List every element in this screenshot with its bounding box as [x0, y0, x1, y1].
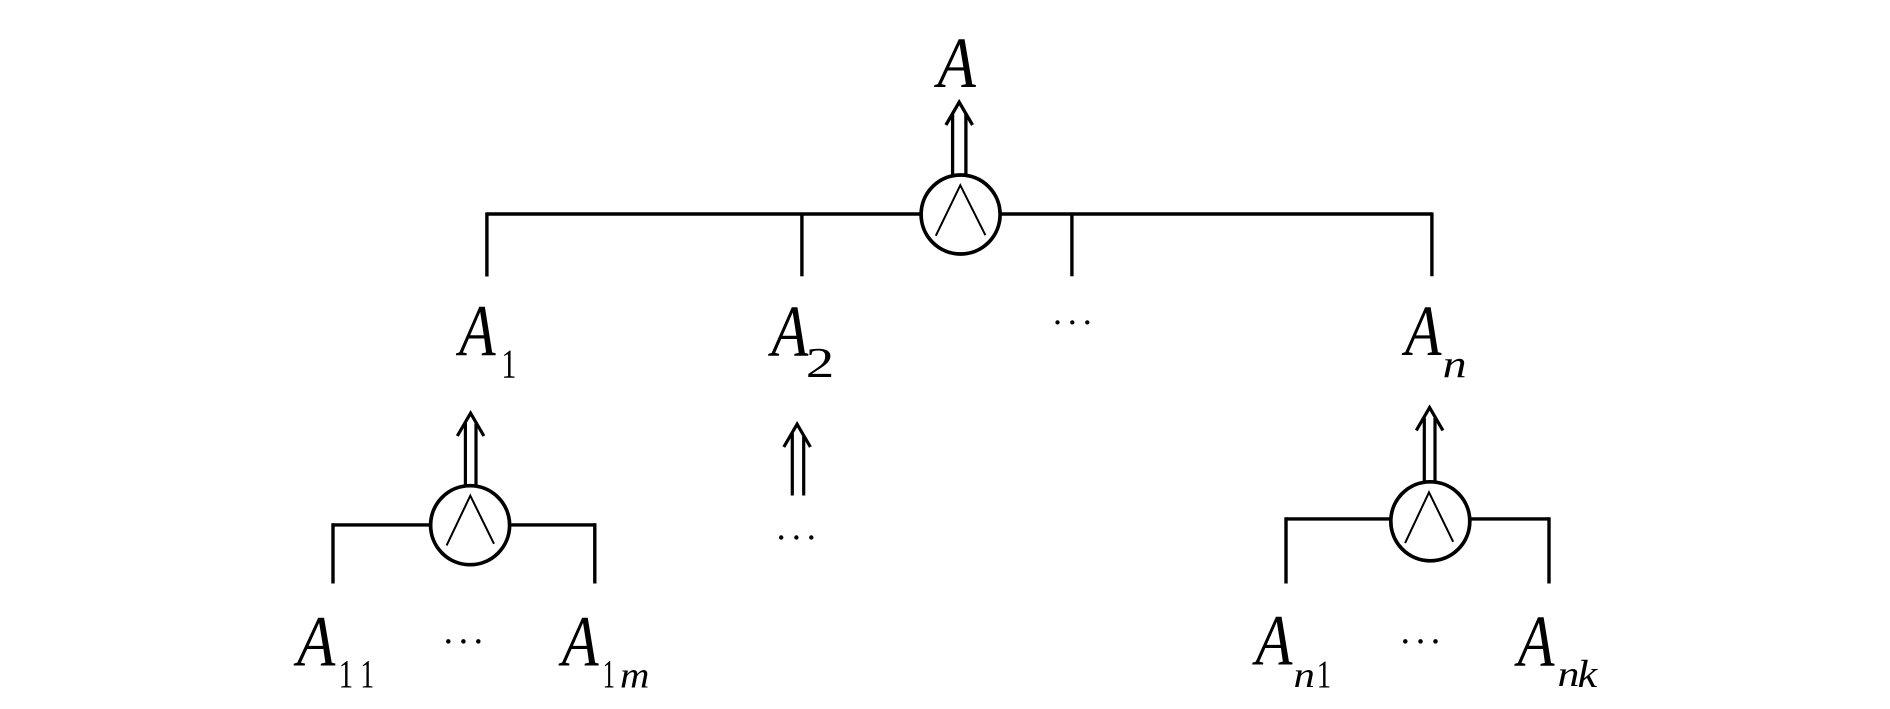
svg-text:n: n [1558, 654, 1580, 694]
AND gate (left, under A1) [431, 486, 510, 565]
wire: drop to Ank [1547, 517, 1550, 583]
svg-text:1: 1 [603, 654, 615, 697]
subscript 1m of A1m [603, 654, 650, 697]
svg-text:m: m [620, 655, 649, 696]
subscript 2 of A2 [806, 339, 835, 386]
arrow from top gate up to A [946, 102, 973, 175]
svg-text:A: A [1514, 602, 1556, 681]
wire: top horizontal bar [487, 212, 1432, 215]
subscript 11 of A11 [339, 652, 375, 697]
ellipsis dots between A2 and An [1055, 320, 1089, 324]
wire: drop to An [1430, 212, 1433, 276]
node label A1 [456, 290, 497, 371]
svg-text:n: n [1293, 655, 1314, 695]
node label A (root) [934, 23, 977, 103]
svg-text:A: A [456, 290, 497, 371]
node label An [1401, 292, 1441, 372]
svg-text:A: A [1252, 602, 1293, 681]
wire: drop to A1m [593, 523, 596, 583]
wire: drop to A11 [331, 523, 334, 583]
svg-text:A: A [934, 23, 977, 103]
svg-text:1: 1 [360, 653, 374, 697]
node label A11 [293, 601, 336, 681]
subscript n of An [1443, 344, 1467, 387]
AND gate (top, under A) [921, 175, 1000, 254]
ellipsis dots between An1 and Ank [1403, 639, 1438, 644]
ellipsis dots between A11 and A1m [446, 639, 481, 644]
svg-text:A: A [768, 290, 809, 372]
svg-text:A: A [558, 602, 599, 681]
wire: drop to A1 [485, 212, 488, 276]
svg-text:1: 1 [1317, 651, 1332, 695]
arrow from left gate up to A1 [457, 413, 484, 486]
arrow below A2 (continuation) [784, 424, 811, 495]
node label An1 [1252, 602, 1293, 681]
wire: right subtree horizontal bar [1286, 517, 1549, 520]
svg-text:A: A [1401, 292, 1441, 372]
svg-text:1: 1 [501, 341, 516, 387]
svg-text:2: 2 [806, 339, 835, 386]
svg-text:A: A [293, 601, 336, 681]
node label Ank [1514, 602, 1556, 681]
subscript 1 of A1 [501, 341, 516, 387]
subscript nk of Ank [1558, 653, 1599, 696]
wire: drop to A2 [800, 214, 803, 276]
node label A2 [768, 290, 809, 372]
svg-text:k: k [1577, 653, 1598, 696]
AND gate (right, under An) [1391, 482, 1470, 561]
wire: left subtree horizontal bar [333, 523, 595, 526]
node label A1m [558, 602, 599, 681]
ellipsis dots below A2 arrow [779, 535, 814, 539]
svg-text:1: 1 [339, 652, 354, 697]
arrow from right gate up to An [1416, 408, 1443, 482]
wire: drop to ellipsis branch [1070, 214, 1073, 276]
wire: drop to An1 [1284, 517, 1287, 583]
svg-text:n: n [1443, 344, 1467, 387]
subscript n1 of An1 [1293, 651, 1331, 695]
